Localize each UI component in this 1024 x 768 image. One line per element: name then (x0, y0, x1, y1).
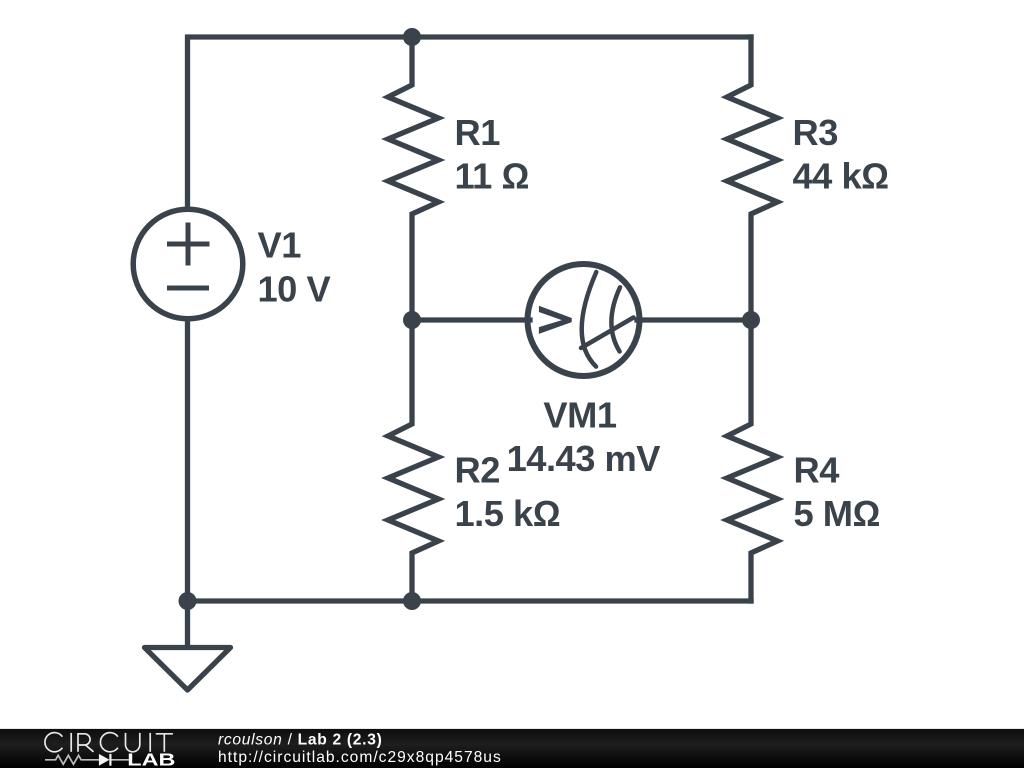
svg-text:R4: R4 (794, 450, 840, 491)
logo letter I (149, 733, 151, 752)
svg-text:V1: V1 (258, 225, 302, 266)
footer bar (0, 729, 1024, 768)
resistor R2 (388, 320, 439, 601)
logo letter R (78, 734, 94, 752)
wire bottom rail (188, 321, 752, 601)
svg-text:R1: R1 (455, 112, 501, 153)
resistor R1 (388, 37, 439, 320)
svg-text:1.5 kΩ: 1.5 kΩ (455, 493, 561, 534)
wire mid left (412, 317, 530, 322)
logo letter C (45, 733, 62, 752)
svg-text:rcoulson / Lab 2 (2.3): rcoulson / Lab 2 (2.3) (218, 732, 382, 749)
resistor R3 (727, 37, 778, 320)
node bottom center (403, 592, 421, 610)
node mid right (742, 311, 760, 329)
footer text line 1 (218, 732, 502, 767)
node mid left (403, 311, 421, 329)
logo diode (99, 754, 111, 766)
logo letter C (100, 733, 117, 752)
svg-text:http://circuitlab.com/c29x8qp4: http://circuitlab.com/c29x8qp4578us (218, 749, 502, 766)
voltmeter arrow glyph (539, 306, 572, 334)
logo letter I (70, 733, 72, 752)
voltage source V1 (133, 209, 243, 319)
svg-text:R3: R3 (793, 112, 838, 153)
svg-text:44 kΩ: 44 kΩ (793, 155, 889, 196)
svg-text:LAB: LAB (127, 750, 175, 768)
node top (403, 28, 421, 46)
svg-text:10 V: 10 V (258, 268, 331, 309)
node dots (179, 28, 761, 610)
logo CIRCUIT letters (45, 733, 173, 752)
svg-text:R2: R2 (455, 450, 500, 491)
svg-text:14.43 mV: 14.43 mV (507, 438, 661, 479)
svg-text:11 Ω: 11 Ω (455, 155, 529, 196)
logo letter U (126, 733, 140, 752)
wire top rail (188, 37, 752, 208)
logo letter T (156, 734, 173, 752)
svg-text:VM1: VM1 (543, 395, 616, 436)
ground (145, 601, 231, 690)
resistor R4 (727, 320, 778, 601)
logo resistor-diode wire (45, 755, 129, 764)
voltmeter VM1 (528, 264, 640, 376)
wire mid right (637, 317, 751, 322)
svg-text:5 MΩ: 5 MΩ (794, 493, 880, 534)
node bottom left (179, 592, 197, 610)
